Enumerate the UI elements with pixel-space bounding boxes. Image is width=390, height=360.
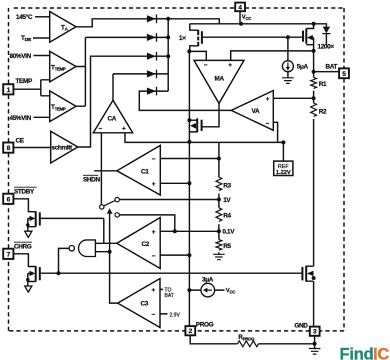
svg-text:5: 5 — [342, 71, 346, 78]
svg-text:TEMP: TEMP — [16, 78, 33, 85]
svg-text:R4: R4 — [223, 212, 231, 219]
svg-text:1.22V: 1.22V — [276, 170, 291, 176]
svg-text:CA: CA — [108, 115, 117, 122]
svg-text:MA: MA — [215, 75, 225, 82]
svg-text:BAT: BAT — [165, 293, 174, 299]
svg-text:1200×: 1200× — [318, 44, 335, 51]
svg-text:−: − — [152, 156, 156, 163]
svg-text:Find: Find — [340, 345, 374, 360]
svg-text:R5: R5 — [223, 243, 231, 250]
svg-text:CHRG: CHRG — [14, 244, 32, 251]
svg-text:R3: R3 — [223, 183, 231, 190]
svg-text:C3: C3 — [141, 301, 149, 308]
svg-text:GND: GND — [294, 323, 308, 330]
svg-text:schmitt: schmitt — [52, 144, 73, 151]
svg-text:145°C: 145°C — [16, 13, 33, 21]
svg-text:3μA: 3μA — [202, 276, 214, 283]
svg-text:C2: C2 — [142, 241, 150, 248]
svg-text:5μA: 5μA — [297, 64, 309, 71]
svg-text:1V: 1V — [223, 197, 231, 204]
svg-text:0.1V: 0.1V — [222, 229, 235, 236]
svg-text:STDBY: STDBY — [14, 189, 35, 196]
svg-text:VCC: VCC — [242, 15, 252, 21]
svg-text:2.9V: 2.9V — [170, 312, 181, 318]
svg-text:BAT: BAT — [326, 63, 338, 70]
svg-text:REF: REF — [278, 164, 289, 170]
svg-text:+: + — [266, 96, 270, 103]
svg-text:C1: C1 — [141, 168, 149, 175]
svg-text:R2: R2 — [319, 109, 327, 116]
svg-text:R1: R1 — [319, 81, 327, 88]
svg-text:+: + — [152, 181, 156, 188]
svg-text:1×: 1× — [179, 35, 186, 42]
svg-text:VCC: VCC — [226, 288, 236, 294]
svg-text:SHDN: SHDN — [83, 176, 100, 183]
svg-text:IC: IC — [373, 345, 389, 360]
svg-text:80%VIN: 80%VIN — [10, 53, 32, 60]
svg-text:VA: VA — [252, 108, 260, 115]
svg-text:PROG: PROG — [196, 321, 214, 328]
svg-text:45%VIN: 45%VIN — [10, 115, 32, 122]
svg-text:CE: CE — [16, 138, 25, 145]
